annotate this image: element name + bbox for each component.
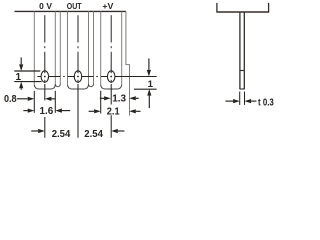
extension line terminal 1 right edge — [54, 91, 56, 113]
svg-text:2.54: 2.54 — [52, 129, 71, 140]
dim 2.1 right arrow — [129, 109, 136, 113]
dim 1.6 left arrow — [28, 109, 35, 113]
narrow strip right of terminal 2 — [93, 11, 95, 84]
svg-text:1: 1 — [148, 79, 154, 90]
dim 2.1 left arrow — [94, 109, 101, 113]
side view terminal pin tip — [239, 88, 244, 90]
dim 1 (hole dia) down arrow — [19, 64, 23, 71]
terminal 1 vertical center line (dash-dot) — [44, 15, 46, 42]
extension line terminal 3 center — [110, 84, 112, 105]
svg-text:OUT: OUT — [67, 1, 83, 11]
side view terminal pin left face — [239, 13, 241, 89]
terminal 3 hole (ellipse) — [107, 71, 115, 82]
terminal 1 (0 V) tab outline — [33, 11, 35, 84]
dim 1 (hole dia) upper extension line — [14, 70, 40, 72]
svg-text:1.3: 1.3 — [112, 94, 126, 105]
svg-text:2.54: 2.54 — [84, 129, 103, 140]
narrow strip right of terminal 1 — [59, 11, 61, 84]
terminal 2 vertical center line (dash-dot) — [77, 15, 79, 42]
body step / notch at right of terminal 3 — [126, 11, 130, 115]
dim 1 (right) down arrow — [147, 70, 151, 77]
extension line pin right face — [244, 92, 246, 105]
terminal 2 (OUT) tab outline — [67, 11, 69, 84]
extension line terminal 3 left edge — [100, 91, 102, 114]
dim 2.54 left arrow — [38, 129, 45, 133]
svg-text:0.8: 0.8 — [4, 94, 17, 105]
dim 1 (right) lower extension line at terminal tip level — [134, 88, 157, 90]
terminal 2 hole (ellipse) — [74, 71, 82, 82]
dim 2.54 right arrow — [111, 129, 118, 133]
extension line terminal 1 left edge — [33, 91, 35, 113]
dim 1 (right) up arrow — [147, 89, 151, 96]
dim 1 (hole dia) up arrow — [19, 82, 23, 89]
svg-text:1.6: 1.6 — [40, 106, 54, 117]
dim 1 (hole dia) lower extension line — [14, 81, 41, 83]
body bottom edge (front view top line) — [15, 10, 126, 12]
extension line pin left face — [239, 92, 241, 105]
horizontal hole center line (dash-dot) — [37, 76, 41, 78]
dim 1.6 right arrow — [55, 109, 62, 113]
extension line terminal 2 center — [77, 84, 79, 138]
side view right upturned end — [268, 3, 270, 12]
side view terminal pin right face — [243, 13, 245, 89]
svg-text:V: V — [46, 1, 52, 11]
svg-text:t 0.3: t 0.3 — [258, 97, 274, 108]
svg-text:+V: +V — [102, 1, 113, 11]
terminal 1 hole (ellipse) — [41, 71, 49, 82]
side view body bottom bar — [216, 11, 269, 13]
svg-text:1: 1 — [16, 72, 22, 83]
dim 0.8 right arrow — [45, 97, 52, 101]
side view left upturned end — [216, 3, 218, 12]
terminal 3 vertical center line (dash-dot) — [110, 15, 112, 42]
dim 1.3 left arrow — [104, 96, 111, 100]
dim 0.8 left arrow — [28, 97, 35, 101]
terminal 3 (+V) tab outline — [100, 11, 102, 84]
dim 1.3 right arrow — [129, 96, 136, 100]
extension line terminal 1 center — [44, 84, 46, 100]
dim t 0.3 left arrow — [233, 99, 240, 103]
svg-text:0: 0 — [39, 1, 44, 11]
dim t 0.3 right arrow — [245, 99, 252, 103]
side view pin bend tick — [240, 70, 244, 72]
svg-text:2.1: 2.1 — [107, 107, 120, 118]
